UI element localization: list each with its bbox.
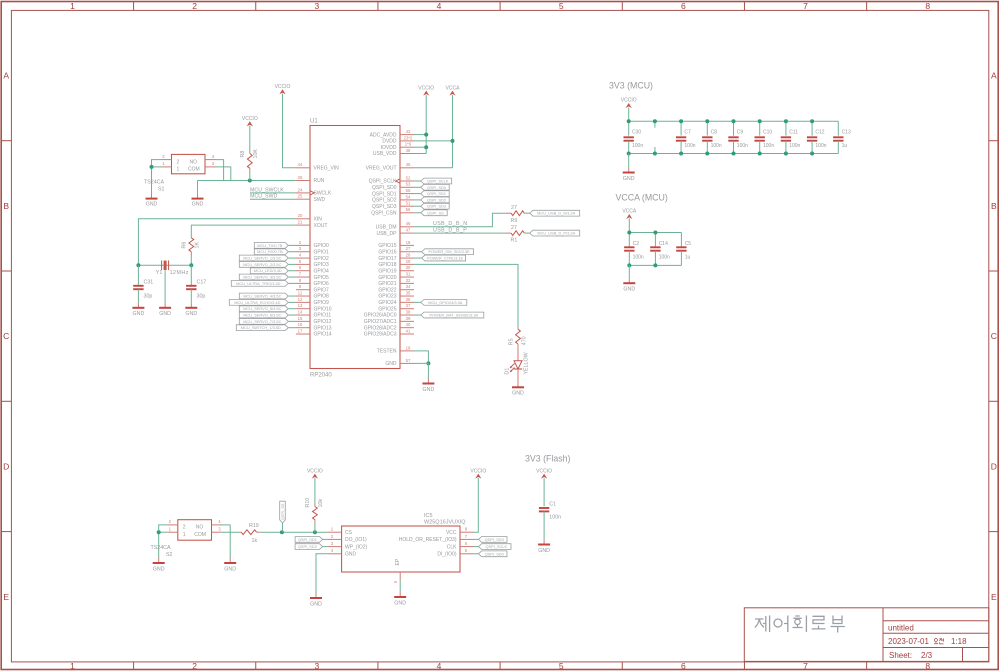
capacitor C14 bbox=[650, 233, 660, 266]
ic U1 right pins bbox=[364, 129, 414, 367]
svg-text:3: 3 bbox=[314, 1, 319, 11]
svg-text:100n: 100n bbox=[684, 143, 695, 149]
svg-text:VCCA: VCCA bbox=[446, 85, 461, 91]
svg-text:GPIO6: GPIO6 bbox=[314, 281, 330, 287]
power flag VCCIO bank bbox=[621, 98, 637, 108]
svg-text:QSPI_CSN: QSPI_CSN bbox=[371, 211, 397, 217]
wire GPIO24 stub bbox=[414, 301, 421, 303]
svg-text:USB_D_B_N: USB_D_B_N bbox=[433, 221, 468, 227]
svg-text:GPIO18: GPIO18 bbox=[378, 262, 396, 268]
wire stub column top bbox=[654, 121, 656, 128]
capacitor C12 bbox=[807, 121, 817, 153]
svg-text:10k: 10k bbox=[318, 499, 324, 508]
svg-text:2/3: 2/3 bbox=[921, 651, 933, 660]
svg-text:QSPI_SD2: QSPI_SD2 bbox=[372, 198, 397, 204]
wire USB_DM bbox=[414, 213, 506, 227]
svg-text:C12: C12 bbox=[815, 129, 824, 135]
svg-text:2: 2 bbox=[192, 1, 197, 11]
svg-text:5: 5 bbox=[465, 548, 468, 553]
svg-text:MCU_TX/0.7B: MCU_TX/0.7B bbox=[257, 243, 282, 248]
wire EP to gnd bbox=[399, 580, 401, 592]
power flag VCCIO R8 bbox=[242, 116, 258, 126]
resistor R9 bbox=[506, 211, 530, 216]
svg-text:C17: C17 bbox=[197, 279, 207, 285]
svg-text:QSPI_SCLK: QSPI_SCLK bbox=[369, 179, 397, 185]
svg-text:DO_(IO1): DO_(IO1) bbox=[345, 537, 367, 543]
svg-text:C7: C7 bbox=[684, 129, 691, 135]
junction S2 left bbox=[157, 530, 161, 534]
wire USB_DP bbox=[414, 232, 506, 234]
svg-text:D: D bbox=[3, 461, 9, 471]
svg-text:4: 4 bbox=[437, 1, 442, 11]
svg-text:C10: C10 bbox=[763, 129, 772, 135]
wire GPIO11 stub bbox=[288, 314, 296, 316]
svg-text:3: 3 bbox=[331, 541, 334, 546]
net flag POWER_CTRL bbox=[422, 255, 466, 261]
svg-text:6: 6 bbox=[465, 541, 468, 546]
svg-text:54: 54 bbox=[406, 194, 411, 199]
svg-text:SWD: SWD bbox=[314, 197, 326, 203]
svg-text:C13: C13 bbox=[842, 129, 851, 135]
power flag VCCIO IC5 bbox=[470, 468, 486, 478]
net flag QSPI_SD3 at IC5 bbox=[479, 537, 508, 543]
ground 3V3 bank bbox=[623, 168, 635, 182]
svg-text:TS24CA: TS24CA bbox=[151, 545, 171, 551]
svg-text:1: 1 bbox=[183, 532, 186, 538]
svg-text:100n: 100n bbox=[633, 255, 644, 261]
wire GPIO1 stub bbox=[288, 251, 296, 253]
ic IC5 outline bbox=[342, 526, 460, 572]
junction C11 bottom bbox=[784, 152, 788, 156]
capacitor C5 bbox=[676, 233, 686, 266]
svg-text:YELLOW: YELLOW bbox=[523, 352, 529, 374]
net flag MCU_SERVO_4 bbox=[239, 293, 288, 299]
junction stub top bbox=[653, 119, 657, 123]
svg-text:5: 5 bbox=[559, 1, 564, 11]
ground C31 bbox=[132, 303, 144, 317]
junction C30 bottom bbox=[627, 152, 631, 156]
svg-text:57: 57 bbox=[406, 358, 411, 363]
svg-text:4: 4 bbox=[331, 548, 334, 553]
wire GPIO12 stub bbox=[288, 320, 296, 322]
svg-text:8: 8 bbox=[925, 1, 930, 11]
wire S2 pin1 left bbox=[159, 531, 168, 533]
wire QSPI_SS flag stem bbox=[282, 523, 284, 532]
svg-text:TS24CA: TS24CA bbox=[144, 180, 164, 186]
net flag QSPI_SS vertical bbox=[280, 501, 286, 523]
junction C7 bottom bbox=[679, 152, 683, 156]
svg-text:QSPI_SD1: QSPI_SD1 bbox=[298, 537, 317, 542]
net flag QSPI_SD0 at IC5 bbox=[479, 551, 508, 557]
svg-text:RUN: RUN bbox=[314, 178, 325, 184]
junction C9 bottom bbox=[732, 152, 736, 156]
svg-text:GND: GND bbox=[310, 601, 322, 607]
net flag QSPI_SD0 at U1 bbox=[421, 184, 450, 190]
wire R10 to CS bbox=[314, 524, 316, 532]
svg-text:C: C bbox=[3, 331, 9, 341]
svg-text:7: 7 bbox=[803, 1, 808, 11]
svg-text:MCU_USB_D_P/3.2A: MCU_USB_D_P/3.2A bbox=[537, 231, 575, 236]
svg-text:4: 4 bbox=[218, 519, 221, 524]
wire ADC_AVDD bbox=[414, 134, 426, 136]
wire VCCIO to R10 bbox=[314, 478, 316, 503]
svg-text:100n: 100n bbox=[737, 143, 748, 149]
svg-text:VCCIO: VCCIO bbox=[536, 468, 552, 474]
svg-text:MCU_LED/3.4D: MCU_LED/3.4D bbox=[254, 268, 282, 273]
svg-text:MCU_RX/0.7B: MCU_RX/0.7B bbox=[257, 249, 283, 254]
svg-text:R5: R5 bbox=[508, 338, 514, 345]
svg-text:3: 3 bbox=[299, 246, 302, 251]
wire VREG_VOUT bbox=[414, 167, 453, 169]
svg-text:GPIO11: GPIO11 bbox=[314, 313, 332, 319]
wire S2 pin3 to R19 bbox=[222, 531, 239, 533]
wire S1 pin2 to pin1 left bbox=[152, 160, 162, 194]
wire VCCA top rail bbox=[629, 232, 681, 234]
svg-text:27: 27 bbox=[406, 246, 411, 251]
ground S1 right bbox=[192, 194, 204, 208]
svg-text:GPIO8: GPIO8 bbox=[314, 294, 330, 300]
wire DVDD bbox=[414, 140, 453, 142]
svg-text:30p: 30p bbox=[144, 293, 153, 299]
svg-text:2: 2 bbox=[183, 525, 186, 531]
wire TESTEN bbox=[414, 351, 428, 364]
svg-text:51: 51 bbox=[406, 201, 411, 206]
svg-text:VREG_VIN: VREG_VIN bbox=[314, 166, 340, 172]
svg-text:POWER_CTRL/3.1E: POWER_CTRL/3.1E bbox=[427, 256, 464, 261]
svg-text:GPIO17: GPIO17 bbox=[378, 256, 396, 262]
frame row ticks bbox=[1, 141, 998, 532]
svg-text:GPIO24: GPIO24 bbox=[378, 300, 396, 306]
junction C10 bottom bbox=[758, 152, 762, 156]
svg-text:VCCIO: VCCIO bbox=[307, 468, 323, 474]
wire QSPI_SD0 stub bbox=[414, 186, 421, 188]
svg-text:A: A bbox=[991, 71, 997, 81]
svg-text:1u: 1u bbox=[685, 255, 691, 261]
svg-text:29: 29 bbox=[406, 259, 411, 264]
frame row letters right bbox=[991, 71, 997, 602]
ground VCCA bank bbox=[623, 278, 635, 292]
svg-text:QSPI_SCLK: QSPI_SCLK bbox=[485, 544, 507, 549]
svg-text:IOVDD: IOVDD bbox=[381, 145, 397, 151]
resistor R8 bbox=[247, 154, 252, 173]
title korean text 제어회로부 bbox=[755, 616, 844, 632]
svg-text:E: E bbox=[991, 592, 997, 602]
svg-text:C9: C9 bbox=[737, 129, 744, 135]
svg-text:MCU_SERVO_4/3.5C: MCU_SERVO_4/3.5C bbox=[243, 293, 281, 298]
svg-text:32: 32 bbox=[406, 278, 411, 283]
svg-text:3: 3 bbox=[314, 661, 319, 671]
svg-text:9: 9 bbox=[393, 580, 398, 583]
svg-text:CS: CS bbox=[345, 530, 353, 536]
resistor R1 bbox=[506, 231, 530, 236]
junction rail right bbox=[189, 263, 193, 267]
svg-text:1:18: 1:18 bbox=[951, 637, 967, 646]
svg-text:39: 39 bbox=[406, 316, 411, 321]
svg-text:12MHz: 12MHz bbox=[170, 270, 189, 276]
wire VCCA column bbox=[452, 95, 454, 168]
wire USB_VDD bbox=[414, 153, 426, 155]
svg-text:GPIO14: GPIO14 bbox=[314, 332, 332, 338]
svg-text:1u: 1u bbox=[842, 143, 848, 149]
svg-text:VCCIO: VCCIO bbox=[418, 85, 434, 91]
svg-text:1k: 1k bbox=[252, 538, 258, 544]
svg-text:MCU_SWITCH_1/3.5D: MCU_SWITCH_1/3.5D bbox=[241, 325, 281, 330]
ic IC5 EP pin bbox=[393, 558, 401, 583]
ground S2 left bbox=[153, 558, 165, 572]
junction stub bottom bbox=[653, 152, 657, 156]
capacitor C10 bbox=[755, 121, 765, 153]
svg-text:QSPI_SD1: QSPI_SD1 bbox=[427, 191, 446, 196]
wire GPIO10 stub bbox=[288, 308, 296, 310]
svg-text:30: 30 bbox=[406, 265, 411, 270]
svg-text:C8: C8 bbox=[711, 129, 718, 135]
net flag MCU_ULTRA_ECHO bbox=[229, 299, 288, 305]
svg-text:MCU_SERVO_3/3.5C: MCU_SERVO_3/3.5C bbox=[243, 275, 281, 280]
junction C12 top bbox=[810, 119, 814, 123]
svg-text:100n: 100n bbox=[632, 143, 643, 149]
capacitor C1 bbox=[539, 478, 549, 539]
svg-text:1: 1 bbox=[70, 1, 75, 11]
svg-text:20: 20 bbox=[298, 213, 303, 218]
svg-text:R19: R19 bbox=[249, 523, 259, 529]
svg-text:XOUT: XOUT bbox=[314, 223, 328, 229]
wire CS net bbox=[259, 531, 327, 533]
ground C1 bbox=[538, 540, 550, 554]
svg-text:POWER_BAT_SENSE/3.3A: POWER_BAT_SENSE/3.3A bbox=[430, 312, 479, 317]
svg-text:GND: GND bbox=[192, 202, 204, 208]
wire RUN net bbox=[198, 180, 297, 182]
svg-text:34: 34 bbox=[406, 284, 411, 289]
svg-text:2: 2 bbox=[192, 661, 197, 671]
svg-text:GND: GND bbox=[423, 387, 435, 393]
junction C12 bottom bbox=[810, 152, 814, 156]
svg-text:EP: EP bbox=[395, 558, 401, 565]
ground U1 bbox=[422, 379, 434, 393]
wire GPIO18 to LED bbox=[414, 264, 518, 327]
svg-text:1: 1 bbox=[70, 661, 75, 671]
svg-text:GPIO21: GPIO21 bbox=[378, 281, 396, 287]
svg-text:GPIO3: GPIO3 bbox=[314, 262, 330, 268]
junction TESTEN GND bbox=[426, 361, 430, 365]
svg-text:QSPI_SCLK: QSPI_SCLK bbox=[427, 178, 449, 183]
svg-text:VCCIO: VCCIO bbox=[621, 98, 637, 104]
title date korean AM bbox=[934, 638, 944, 643]
svg-text:QSPI_SD3: QSPI_SD3 bbox=[485, 537, 504, 542]
svg-text:VCCIO: VCCIO bbox=[470, 468, 486, 474]
svg-text:GPIO25: GPIO25 bbox=[378, 306, 396, 312]
wire VCCA bottom rail bbox=[629, 264, 681, 266]
svg-text:VCCA: VCCA bbox=[622, 209, 637, 215]
junction C2 bottom bbox=[627, 263, 631, 267]
junction C2 top bbox=[627, 231, 631, 235]
svg-text:C31: C31 bbox=[144, 279, 154, 285]
svg-text:QSPI_SS: QSPI_SS bbox=[427, 210, 444, 215]
wire S2 pin4 to gnd bbox=[222, 525, 230, 558]
svg-text:QSPI_SD3: QSPI_SD3 bbox=[427, 204, 446, 209]
svg-text:5: 5 bbox=[299, 259, 302, 264]
svg-text:48: 48 bbox=[406, 148, 411, 153]
capacitor C13 bbox=[833, 121, 843, 153]
svg-text:23*2: 23*2 bbox=[404, 135, 413, 140]
svg-text:470: 470 bbox=[522, 336, 528, 345]
svg-text:1K: 1K bbox=[194, 242, 200, 249]
svg-text:GPIO16: GPIO16 bbox=[378, 249, 396, 255]
svg-text:2: 2 bbox=[162, 154, 165, 159]
svg-text:C5: C5 bbox=[685, 241, 692, 247]
svg-text:43: 43 bbox=[406, 129, 411, 134]
frame column ticks bbox=[134, 2, 867, 670]
wire MCU_SWD bbox=[250, 198, 296, 200]
junction QSPI_SS flag bbox=[280, 530, 284, 534]
svg-text:GND: GND bbox=[385, 361, 397, 367]
junction RUN R8 bbox=[248, 179, 252, 183]
wire 3V3 bottom rail bbox=[629, 153, 839, 155]
svg-text:MCU_USB_D_N/3.2A: MCU_USB_D_N/3.2A bbox=[537, 211, 575, 216]
svg-text:GPIO26/ADC0: GPIO26/ADC0 bbox=[364, 313, 397, 319]
svg-text:R1: R1 bbox=[511, 238, 518, 244]
ground IC5 GND pin bbox=[310, 593, 322, 607]
svg-text:27: 27 bbox=[511, 225, 517, 231]
ground Y1 bbox=[159, 303, 171, 317]
svg-text:41: 41 bbox=[406, 328, 411, 333]
junction S1 left bbox=[150, 165, 154, 169]
svg-text:USB_VDD: USB_VDD bbox=[373, 151, 397, 157]
svg-text:38: 38 bbox=[406, 309, 411, 314]
wire 3V3 top rail bbox=[629, 120, 839, 122]
svg-text:Y1: Y1 bbox=[156, 270, 163, 276]
junction C14 top bbox=[653, 231, 657, 235]
svg-text:GND: GND bbox=[512, 391, 524, 397]
wire U1 GND bbox=[414, 363, 428, 378]
svg-text:44: 44 bbox=[298, 162, 303, 167]
wire R8 to RUN bbox=[249, 173, 251, 181]
svg-text:GND: GND bbox=[623, 176, 635, 182]
svg-text:DI_(IO0): DI_(IO0) bbox=[437, 552, 457, 558]
net flag MCU_SERVO_2 bbox=[239, 261, 288, 267]
svg-text:USB_D_B_P: USB_D_B_P bbox=[433, 228, 467, 234]
svg-text:GND: GND bbox=[623, 287, 635, 293]
net flag POWER_SW_SIG bbox=[422, 249, 474, 255]
svg-text:untitled: untitled bbox=[888, 624, 914, 633]
junction IOVDD VCCIO bbox=[424, 145, 428, 149]
svg-text:MCU_ULTRA_ECHO/3.4D: MCU_ULTRA_ECHO/3.4D bbox=[234, 300, 280, 305]
svg-text:3V3 (Flash): 3V3 (Flash) bbox=[525, 454, 571, 464]
svg-text:GPIO13: GPIO13 bbox=[314, 325, 332, 331]
svg-text:B: B bbox=[3, 201, 9, 211]
net flag QSPI_SD3 at U1 bbox=[421, 203, 450, 209]
wire S1 pin1 left bbox=[152, 166, 162, 168]
svg-text:R10: R10 bbox=[305, 498, 311, 508]
power flag VCCA U1 right bbox=[446, 85, 461, 95]
svg-text:GPIO1: GPIO1 bbox=[314, 249, 330, 255]
svg-text:W25Q16JVUXIQ: W25Q16JVUXIQ bbox=[424, 519, 466, 525]
net flag MCU_SERVO_1 bbox=[239, 255, 288, 261]
svg-text:37: 37 bbox=[406, 303, 411, 308]
wire QSPI_SD3 stub bbox=[414, 205, 421, 207]
svg-text:U1: U1 bbox=[310, 119, 318, 125]
net flag MCU_SERVO_5 bbox=[239, 306, 288, 312]
svg-text:2: 2 bbox=[177, 159, 180, 165]
power flag VCCIO U1 right bbox=[418, 85, 434, 95]
svg-text:11: 11 bbox=[298, 290, 303, 295]
wire VCCA bank stem bbox=[628, 219, 630, 233]
svg-text:45: 45 bbox=[406, 162, 411, 167]
svg-text:26: 26 bbox=[298, 175, 303, 180]
capacitor C7 bbox=[676, 121, 686, 153]
capacitor C17 bbox=[186, 265, 196, 303]
wire GPIO16 stub bbox=[414, 251, 422, 253]
junction C14 bottom bbox=[653, 263, 657, 267]
svg-text:6: 6 bbox=[681, 1, 686, 11]
junction rail left bbox=[136, 263, 140, 267]
wire S1 pin4 down bbox=[216, 160, 224, 181]
frame row letters left bbox=[3, 71, 9, 602]
wire VCCA gnd drop bbox=[628, 265, 630, 278]
svg-text:QSPI_SD0: QSPI_SD0 bbox=[427, 185, 447, 190]
title block row lines bbox=[883, 621, 989, 662]
svg-text:GND: GND bbox=[133, 311, 145, 317]
junction C7 top bbox=[679, 119, 683, 123]
frame column numbers top bbox=[70, 1, 930, 11]
wire VCCIO column bbox=[425, 95, 427, 153]
wire GPIO2 stub bbox=[288, 257, 296, 259]
svg-text:100n: 100n bbox=[815, 143, 826, 149]
junction C9 top bbox=[732, 119, 736, 123]
ic U1 SWCLK clock mark bbox=[310, 191, 314, 195]
svg-text:2: 2 bbox=[169, 519, 172, 524]
svg-text:NO: NO bbox=[190, 159, 198, 165]
svg-text:12: 12 bbox=[298, 297, 303, 302]
svg-text:R6: R6 bbox=[181, 242, 187, 249]
junction C11 top bbox=[784, 119, 788, 123]
title block box bbox=[744, 608, 989, 662]
net flag QSPI_SCLK at U1 bbox=[421, 178, 452, 184]
svg-text:B: B bbox=[991, 201, 997, 211]
svg-text:A: A bbox=[3, 71, 9, 81]
svg-text:100n: 100n bbox=[659, 255, 670, 261]
wire QSPI_SCLK stub bbox=[414, 180, 421, 182]
capacitor C8 bbox=[702, 121, 712, 153]
svg-text:19: 19 bbox=[406, 345, 411, 350]
svg-text:Sheet:: Sheet: bbox=[889, 651, 912, 660]
wire GPIO17 stub bbox=[414, 257, 422, 259]
svg-text:8: 8 bbox=[925, 661, 930, 671]
power flag VCCIO C1 bbox=[536, 468, 552, 478]
wire IC5 GND pin bbox=[316, 554, 328, 593]
svg-text:VCCIO: VCCIO bbox=[275, 84, 291, 90]
resistor R6 bbox=[189, 238, 194, 256]
svg-text:GPIO29/ADC3: GPIO29/ADC3 bbox=[364, 332, 397, 338]
svg-text:MCU_SERVO_2/3.5C: MCU_SERVO_2/3.5C bbox=[243, 262, 281, 267]
net flag MCU_SERVO_7 bbox=[239, 318, 288, 324]
svg-text:C1: C1 bbox=[549, 501, 556, 507]
svg-text:CLK: CLK bbox=[447, 544, 457, 550]
svg-text:36: 36 bbox=[406, 297, 411, 302]
svg-text:53: 53 bbox=[406, 182, 411, 187]
svg-text:7: 7 bbox=[803, 661, 808, 671]
wire QSPI_SD2 stub bbox=[323, 546, 328, 548]
svg-text:9: 9 bbox=[299, 284, 302, 289]
power flag VCCA bank bbox=[622, 209, 637, 219]
svg-text:MCU_SERVO_6/3.5C: MCU_SERVO_6/3.5C bbox=[243, 312, 281, 317]
ground C17 bbox=[185, 303, 197, 317]
svg-text:1: 1 bbox=[169, 526, 172, 531]
svg-text:GPIO0: GPIO0 bbox=[314, 243, 330, 249]
svg-text:GPIO20: GPIO20 bbox=[378, 275, 396, 281]
svg-text:GPIO2: GPIO2 bbox=[314, 256, 330, 262]
net flag MCU_TX bbox=[254, 243, 288, 249]
wire VCCIO to R8 bbox=[249, 126, 251, 154]
